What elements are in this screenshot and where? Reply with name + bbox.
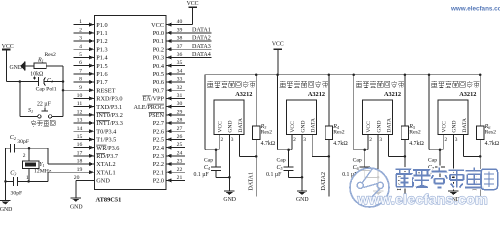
svg-text:GND: GND xyxy=(0,207,12,212)
pin 25 (P2.4) xyxy=(153,142,185,152)
svg-text:GND: GND xyxy=(70,205,83,211)
pin 3 (P1.2) xyxy=(74,36,108,46)
svg-text:7: 7 xyxy=(79,68,82,74)
capacitor C3 30pF xyxy=(6,177,29,186)
svg-text:P1.7: P1.7 xyxy=(96,79,107,86)
pin 14 (T0/P3.4) xyxy=(74,126,118,136)
svg-text:24: 24 xyxy=(177,150,183,156)
capacitor C5 0.1uF xyxy=(284,150,303,178)
junction C7/GND xyxy=(452,176,455,179)
wire/net DATA1 xyxy=(240,156,257,196)
svg-text:P0.6: P0.6 xyxy=(153,79,164,86)
svg-text:32: 32 xyxy=(177,85,183,91)
svg-text:Cap: Cap xyxy=(353,158,362,164)
svg-text:DATA1: DATA1 xyxy=(249,172,255,191)
svg-text:ALE/PROG: ALE/PROG xyxy=(133,104,164,111)
wire XTAL2 (pin 18) xyxy=(48,148,95,164)
svg-text:TXD/P3.1: TXD/P3.1 xyxy=(96,104,122,111)
svg-text:DATA: DATA xyxy=(387,118,393,132)
junction C1 right xyxy=(62,80,65,83)
svg-text:P0.2: P0.2 xyxy=(153,46,164,53)
svg-text:2: 2 xyxy=(79,27,82,33)
svg-text:DATA: DATA xyxy=(311,118,317,132)
pin 1 (P1.0) xyxy=(74,19,108,29)
svg-text:9: 9 xyxy=(79,85,82,91)
svg-text:10: 10 xyxy=(77,93,83,99)
svg-text:GND: GND xyxy=(296,197,309,203)
svg-text:P1.5: P1.5 xyxy=(96,63,107,70)
junction C4 top xyxy=(215,148,218,151)
svg-text:RXD/P3.0: RXD/P3.0 xyxy=(96,96,122,103)
pin 10 (RXD/P3.0) xyxy=(74,93,123,103)
ground (chip pin 20) xyxy=(71,198,81,202)
wire/net DATA2 xyxy=(312,156,329,196)
pin 19 (XTAL1) xyxy=(77,167,116,177)
svg-text:8: 8 xyxy=(79,77,82,83)
hall switch module U4 A3212 xyxy=(354,75,405,150)
junction rail/unit3 vcc xyxy=(352,73,355,76)
svg-text:INT0/P3.2: INT0/P3.2 xyxy=(96,112,123,119)
svg-text:Cap Pol1: Cap Pol1 xyxy=(36,87,57,93)
ground (unit 3) xyxy=(373,191,383,195)
hall switch module U3 A3212 xyxy=(278,75,329,150)
svg-text:27: 27 xyxy=(177,126,183,132)
svg-text:3: 3 xyxy=(455,137,458,143)
svg-text:XTAL2: XTAL2 xyxy=(96,161,115,168)
svg-text:16: 16 xyxy=(77,142,83,148)
svg-text:P2.0: P2.0 xyxy=(153,178,164,185)
svg-text:34: 34 xyxy=(177,68,183,74)
svg-text:GND: GND xyxy=(228,120,234,132)
pin 33 (P0.6) xyxy=(153,77,185,87)
pin 34 (P0.5) xyxy=(153,68,185,78)
svg-text:2: 2 xyxy=(445,137,448,143)
svg-text:3: 3 xyxy=(303,137,306,143)
wire U3 vcc feed xyxy=(278,149,292,151)
resistor R6 4.7k body xyxy=(477,126,484,157)
pin 7 (P1.6) xyxy=(74,68,108,78)
ground (unit 2) xyxy=(297,191,307,195)
svg-text:29: 29 xyxy=(177,109,183,115)
svg-text:12: 12 xyxy=(77,109,83,115)
svg-text:www.elecfans.com: www.elecfans.com xyxy=(357,192,488,208)
junction rail/R4 xyxy=(328,73,331,76)
svg-text:A3212: A3212 xyxy=(308,91,325,98)
svg-text:WR/P3.6: WR/P3.6 xyxy=(96,145,119,152)
svg-text:RESET: RESET xyxy=(96,87,115,94)
wire VCC rail to C1 left plate xyxy=(6,81,38,83)
capacitor C1 Cap Pol1 22uF xyxy=(33,76,63,85)
svg-text:0.1 µF: 0.1 µF xyxy=(266,172,282,178)
pin 15 (T1/P3.5) xyxy=(74,134,117,144)
svg-text:11: 11 xyxy=(77,101,83,107)
watermark logo square xyxy=(481,169,498,190)
svg-text:DATA2: DATA2 xyxy=(321,172,327,191)
svg-text:DATA: DATA xyxy=(238,118,244,132)
svg-text:P2.1: P2.1 xyxy=(153,169,164,176)
svg-text:30pF: 30pF xyxy=(17,139,29,145)
svg-text:GND: GND xyxy=(452,120,458,132)
svg-text:DATA2: DATA2 xyxy=(192,36,211,42)
junction C5 top xyxy=(287,148,290,151)
svg-text:C1: C1 xyxy=(47,78,53,84)
svg-text:20: 20 xyxy=(74,175,80,181)
svg-text:4.7kΩ: 4.7kΩ xyxy=(409,141,424,147)
svg-text:3: 3 xyxy=(379,137,382,143)
svg-text:22: 22 xyxy=(177,167,183,173)
wire chip GND (pin 20) xyxy=(75,180,77,197)
svg-text:2: 2 xyxy=(369,137,372,143)
svg-text:www.elecfans.com: www.elecfans.com xyxy=(450,5,500,12)
wire U2 vcc feed xyxy=(205,149,219,151)
svg-text:XTAL1: XTAL1 xyxy=(96,169,115,176)
svg-text:36: 36 xyxy=(177,52,183,58)
svg-text:VCC: VCC xyxy=(442,121,448,133)
label hall switch U4 (CJK) xyxy=(356,81,362,88)
svg-text:12MHz: 12MHz xyxy=(34,168,52,174)
svg-text:P0.1: P0.1 xyxy=(153,38,164,45)
ground (left rail) xyxy=(0,201,10,205)
junction C6/GND xyxy=(377,176,380,179)
GND connector plug xyxy=(10,62,25,71)
capacitor C4 0.1uF xyxy=(211,150,230,178)
svg-text:10kΩ: 10kΩ xyxy=(30,72,44,78)
U5 symbol body xyxy=(438,100,468,134)
resistor R4 4.7k body xyxy=(325,126,332,157)
junction DATA1/R3 xyxy=(255,155,258,158)
svg-text:EA/VPP: EA/VPP xyxy=(142,96,164,103)
svg-text:RD/P3.7: RD/P3.7 xyxy=(96,153,118,160)
wire U4 vcc feed xyxy=(354,149,368,151)
pin 17 (<tspan text-decoration='overline'>RD</tspan>/P3.7) xyxy=(74,150,119,160)
U2 pin stubs and numbers xyxy=(219,134,239,191)
svg-text:P2.5: P2.5 xyxy=(153,137,164,144)
svg-text:31: 31 xyxy=(177,93,183,99)
pin 37 (P0.2) xyxy=(153,44,212,54)
svg-text:A3212: A3212 xyxy=(235,91,252,98)
svg-text:Res2: Res2 xyxy=(261,129,273,135)
wire VCC rail xyxy=(205,74,481,76)
svg-text:14: 14 xyxy=(77,126,83,132)
pin 32 (P0.7) xyxy=(153,85,185,95)
junction rail/unit2 vcc xyxy=(276,73,279,76)
svg-text:VCC: VCC xyxy=(272,42,284,48)
ground (unit 1) xyxy=(224,191,234,195)
svg-text:T0/P3.4: T0/P3.4 xyxy=(96,128,117,135)
svg-text:25: 25 xyxy=(177,142,183,148)
svg-text:C4: C4 xyxy=(204,165,210,171)
junction DATA3/R5 xyxy=(404,155,407,158)
crystal Y1 12MHz xyxy=(22,148,39,181)
pin 9 (RESET) xyxy=(63,85,116,95)
svg-text:0.1 µF: 0.1 µF xyxy=(194,172,210,178)
microcontroller U1 AT89C51 body xyxy=(95,16,167,190)
svg-text:39: 39 xyxy=(177,27,183,33)
svg-text:C2: C2 xyxy=(10,135,16,141)
svg-text:R1: R1 xyxy=(37,58,44,64)
svg-text:P2.7: P2.7 xyxy=(153,120,164,127)
junction C5/GND xyxy=(301,176,304,179)
junction C3 left xyxy=(4,180,7,183)
pin 21 (P2.0) xyxy=(153,175,185,185)
wire R1 to reset rail xyxy=(46,65,63,67)
svg-text:C3: C3 xyxy=(10,171,16,177)
svg-text:P1.1: P1.1 xyxy=(96,30,107,37)
junction RESET pin 9 xyxy=(62,89,65,92)
svg-text:DATA3: DATA3 xyxy=(192,44,211,50)
svg-text:VCC: VCC xyxy=(366,121,372,133)
svg-text:S1: S1 xyxy=(28,108,33,114)
svg-text:VCC: VCC xyxy=(218,121,224,133)
pin 35 (P0.4) xyxy=(153,60,185,70)
reset node rail vertical xyxy=(62,66,64,116)
switch S1 xyxy=(20,82,63,119)
svg-text:P1.6: P1.6 xyxy=(96,71,107,78)
svg-text:26: 26 xyxy=(177,134,183,140)
svg-text:Res2: Res2 xyxy=(333,129,345,135)
svg-text:23: 23 xyxy=(177,159,183,165)
junction crystal top xyxy=(28,147,31,150)
svg-text:13: 13 xyxy=(77,118,83,124)
svg-text:21: 21 xyxy=(177,175,183,181)
wire/net DATA3 xyxy=(388,156,405,196)
pin 6 (P1.5) xyxy=(74,60,108,70)
label micro switch (CJK) xyxy=(31,120,36,126)
capacitor C7 0.1uF xyxy=(435,150,454,178)
junction C7 top xyxy=(439,148,442,151)
label hall switch U5 (CJK) xyxy=(431,81,437,88)
junction rail/R3 xyxy=(255,73,258,76)
svg-text:P1.2: P1.2 xyxy=(96,38,107,45)
svg-text:Cap: Cap xyxy=(428,158,437,164)
svg-text:3: 3 xyxy=(79,36,82,42)
svg-text:GND: GND xyxy=(376,120,382,132)
svg-text:4.7kΩ: 4.7kΩ xyxy=(333,141,348,147)
svg-text:4: 4 xyxy=(79,44,82,50)
junction C4/GND xyxy=(228,176,231,179)
svg-text:P0.7: P0.7 xyxy=(153,87,164,94)
U4 pin stubs and numbers xyxy=(368,134,388,191)
pin 20 (GND) xyxy=(74,175,111,185)
wire U5 vcc feed xyxy=(429,149,443,151)
svg-text:DATA1: DATA1 xyxy=(192,28,211,34)
svg-text:VCC: VCC xyxy=(290,121,296,133)
pin 36 (P0.3) xyxy=(153,52,212,62)
pin 22 (P2.1) xyxy=(153,167,185,177)
pin 13 (<tspan text-decoration='overline'>INT1</tspan>/P3.3) xyxy=(74,118,123,128)
ground (unit 4) xyxy=(448,191,458,195)
pin 29 (<tspan text-decoration='overline'>PSEN</tspan>) xyxy=(149,109,185,119)
VCC power symbol (chip) xyxy=(187,1,199,25)
junction rail/unit4 vcc xyxy=(428,73,431,76)
pin 4 (P1.3) xyxy=(74,44,108,54)
svg-text:VCC: VCC xyxy=(187,1,199,7)
pin 38 (P0.1) xyxy=(153,36,212,46)
svg-text:4.7kΩ: 4.7kΩ xyxy=(261,141,276,147)
svg-text:30: 30 xyxy=(177,101,183,107)
svg-text:GND: GND xyxy=(300,120,306,132)
svg-text:38: 38 xyxy=(177,36,183,42)
svg-text:C6: C6 xyxy=(353,165,360,171)
pin 12 (<tspan text-decoration='overline'>INT0</tspan>/P3.2) xyxy=(74,109,123,119)
svg-text:2: 2 xyxy=(221,137,224,143)
junction C6 top xyxy=(363,148,366,151)
left ground rail xyxy=(5,148,7,200)
svg-text:22 µF: 22 µF xyxy=(37,101,52,107)
watermark big CJK text xyxy=(396,169,414,187)
pin 8 (P1.7) xyxy=(74,77,108,87)
svg-text:4.7kΩ: 4.7kΩ xyxy=(485,141,500,147)
VCC power symbol (left) xyxy=(2,44,14,82)
pin 11 (TXD/P3.1) xyxy=(74,101,123,111)
svg-text:P2.2: P2.2 xyxy=(153,161,164,168)
pin 30 (ALE/<tspan text-decoration='overline'>PROG</tspan>) xyxy=(133,101,185,111)
svg-text:35: 35 xyxy=(177,60,183,66)
svg-text:A3212: A3212 xyxy=(459,91,476,98)
svg-text:P0.5: P0.5 xyxy=(153,71,164,78)
svg-text:GND: GND xyxy=(96,178,110,185)
svg-text:33: 33 xyxy=(177,77,183,83)
svg-text:P0.0: P0.0 xyxy=(153,30,164,37)
label hall switch U2 (CJK) xyxy=(207,81,213,88)
resistor R3 4.7k body xyxy=(253,126,260,157)
pin 16 (<tspan text-decoration='overline'>WR</tspan>/P3.6) xyxy=(74,142,120,152)
svg-text:17: 17 xyxy=(77,150,83,156)
pin 5 (P1.4) xyxy=(74,52,109,62)
svg-text:Cap: Cap xyxy=(277,158,286,164)
junction rail/R6 xyxy=(479,73,482,76)
svg-text:P1.0: P1.0 xyxy=(96,22,107,29)
svg-text:AT89C51: AT89C51 xyxy=(96,196,122,203)
svg-text:Res2: Res2 xyxy=(485,129,497,135)
U5 pin stubs and numbers xyxy=(443,134,463,191)
svg-text:P1.4: P1.4 xyxy=(96,55,108,62)
U2 symbol body xyxy=(214,100,244,134)
svg-text:A3212: A3212 xyxy=(384,91,401,98)
svg-text:P0.3: P0.3 xyxy=(153,55,164,62)
svg-text:PSEN: PSEN xyxy=(149,112,165,119)
pin 27 (P2.6) xyxy=(153,126,185,136)
svg-text:5: 5 xyxy=(79,52,82,58)
svg-text:1: 1 xyxy=(79,19,82,25)
svg-text:GND: GND xyxy=(10,65,23,71)
hall switch module U5 A3212 xyxy=(429,75,480,150)
U3 pin stubs and numbers xyxy=(292,134,312,191)
svg-text:3: 3 xyxy=(231,137,234,143)
pin 40 (VCC) xyxy=(151,19,192,29)
U4 symbol body xyxy=(363,100,393,134)
junction rail/R5 xyxy=(404,73,407,76)
svg-text:2: 2 xyxy=(293,137,296,143)
svg-text:28: 28 xyxy=(177,118,183,124)
pin 24 (P2.3) xyxy=(153,150,185,160)
junction switch branch xyxy=(19,80,22,83)
svg-text:Res2: Res2 xyxy=(409,129,421,135)
pin 39 (P0.0) xyxy=(153,27,212,37)
label hall switch U3 (CJK) xyxy=(280,81,286,88)
svg-text:C5: C5 xyxy=(277,165,283,171)
svg-text:VCC: VCC xyxy=(151,22,164,29)
svg-text:GND: GND xyxy=(223,197,236,203)
svg-text:DATA: DATA xyxy=(462,118,468,132)
hall switch module U2 A3212 xyxy=(205,75,256,150)
pin 26 (P2.5) xyxy=(153,134,185,144)
svg-text:6: 6 xyxy=(79,60,82,66)
svg-text:Res2: Res2 xyxy=(45,52,57,58)
pin 31 (<tspan text-decoration='overline'>EA</tspan>/VPP) xyxy=(142,93,185,103)
resistor R1 10k body xyxy=(34,63,46,69)
pin 23 (P2.2) xyxy=(153,159,185,169)
svg-text:P2.4: P2.4 xyxy=(153,145,165,152)
svg-text:DATA4: DATA4 xyxy=(192,52,211,58)
svg-text:P2.3: P2.3 xyxy=(153,153,164,160)
svg-text:T1/P3.5: T1/P3.5 xyxy=(96,137,116,144)
watermark circle logo xyxy=(350,168,389,207)
junction crystal bottom xyxy=(27,180,30,183)
U3 symbol body xyxy=(287,100,317,134)
svg-text:Y1: Y1 xyxy=(39,162,44,168)
svg-text:30pF: 30pF xyxy=(11,191,23,197)
capacitor C2 30pF xyxy=(6,144,48,153)
junction DATA4/R6 xyxy=(479,155,482,158)
svg-text:INT1/P3.3: INT1/P3.3 xyxy=(96,120,123,127)
svg-text:Cap: Cap xyxy=(204,158,213,164)
pin 18 (XTAL2) xyxy=(77,159,116,169)
svg-text:40: 40 xyxy=(177,19,183,25)
wire GND plug to R1 xyxy=(26,65,35,67)
capacitor C6 0.1uF xyxy=(360,150,379,178)
pin 2 (P1.1) xyxy=(74,27,108,37)
svg-text:15: 15 xyxy=(77,134,83,140)
svg-text:P1.3: P1.3 xyxy=(96,46,107,53)
svg-text:2: 2 xyxy=(23,153,26,159)
VCC power symbol (hall rail) xyxy=(272,42,284,75)
junction DATA2/R4 xyxy=(328,155,331,158)
wire/net DATA4 xyxy=(464,156,481,196)
svg-text:P2.6: P2.6 xyxy=(153,128,164,135)
pin 28 (P2.7) xyxy=(153,118,185,128)
resistor R5 4.7k body xyxy=(401,126,408,157)
wire XTAL1 (pin 19) xyxy=(29,172,95,181)
svg-text:P0.4: P0.4 xyxy=(153,63,165,70)
svg-text:37: 37 xyxy=(177,44,183,50)
